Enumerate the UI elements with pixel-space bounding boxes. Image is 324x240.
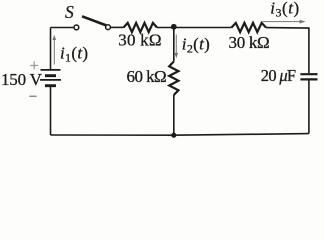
svg-text:30 kΩ: 30 kΩ [118,30,161,49]
svg-text:i3(t): i3(t) [270,0,299,19]
svg-text:150 V: 150 V [1,70,43,89]
svg-text:i2(t): i2(t) [182,34,210,55]
svg-text:i1(t): i1(t) [60,43,88,64]
svg-text:S: S [65,2,74,22]
svg-text:60 kΩ: 60 kΩ [127,67,167,86]
svg-text:20 μF: 20 μF [261,66,296,85]
svg-text:30 kΩ: 30 kΩ [229,33,270,52]
